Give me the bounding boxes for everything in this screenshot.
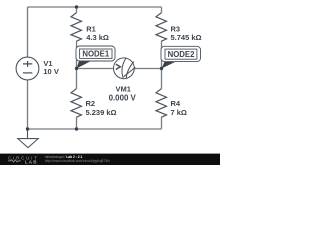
- wire R3 top stub: [161, 7, 163, 13]
- svg-text:5.239 kΩ: 5.239 kΩ: [86, 108, 117, 117]
- voltmeter gauge arc 2: [126, 62, 134, 79]
- resistor R1: [71, 13, 82, 42]
- svg-text:R2: R2: [86, 99, 96, 108]
- node junction dot ground: [26, 127, 29, 130]
- wire R1 top stub: [76, 7, 78, 13]
- svg-text:NODE1: NODE1: [82, 50, 110, 59]
- V1 plus sign: [23, 61, 32, 67]
- voltmeter chevron: [116, 64, 121, 69]
- wire voltmeter to NODE2 junction: [134, 68, 161, 70]
- wire R2 bottom stub: [76, 117, 78, 129]
- wire bottom rail: [28, 128, 162, 130]
- resistor R2: [71, 89, 82, 118]
- wire R4 bottom stub: [161, 117, 163, 129]
- svg-text:0.000 V: 0.000 V: [109, 93, 137, 102]
- resistor R3: [156, 13, 167, 42]
- svg-text:LAB: LAB: [25, 159, 38, 164]
- voltage source V1 circle: [16, 57, 39, 80]
- svg-text:4.3 kΩ: 4.3 kΩ: [86, 33, 109, 42]
- wire NODE1 junction down to R2: [76, 69, 78, 89]
- node junction dot top: [75, 5, 78, 8]
- wire left branch lower: [27, 80, 29, 129]
- resistor R4: [156, 89, 167, 118]
- wire R3 to NODE2 junction: [161, 41, 163, 68]
- footer bar: [0, 154, 220, 165]
- voltmeter gauge arc 1: [122, 58, 126, 78]
- wire left branch upper: [27, 7, 29, 57]
- svg-text:NODE2: NODE2: [168, 50, 196, 59]
- node NODE1 flag: [76, 46, 115, 69]
- node junction dot NODE2: [160, 67, 163, 70]
- ground: [18, 129, 38, 148]
- voltmeter needle: [124, 67, 136, 76]
- svg-text:10 V: 10 V: [43, 67, 58, 76]
- node junction dot NODE1: [75, 67, 78, 70]
- voltmeter VM1 circle: [114, 58, 136, 79]
- node junction dot R2 bottom: [75, 127, 78, 130]
- footer logo zigzag: [8, 160, 21, 162]
- svg-text:R4: R4: [171, 99, 181, 108]
- svg-text:5.745 kΩ: 5.745 kΩ: [171, 33, 202, 42]
- svg-text:7 kΩ: 7 kΩ: [171, 108, 187, 117]
- wire R1 to NODE1 junction: [76, 41, 78, 68]
- svg-text:http://www.circuitlab.com/circ: http://www.circuitlab.com/circuit/pjy6vj…: [45, 159, 110, 163]
- wire NODE2 junction down to R4: [161, 69, 163, 89]
- wire top rail: [28, 6, 162, 8]
- V1 minus sign: [23, 72, 32, 74]
- node NODE2 flag: [161, 46, 201, 68]
- wire NODE1 junction to voltmeter: [77, 68, 114, 70]
